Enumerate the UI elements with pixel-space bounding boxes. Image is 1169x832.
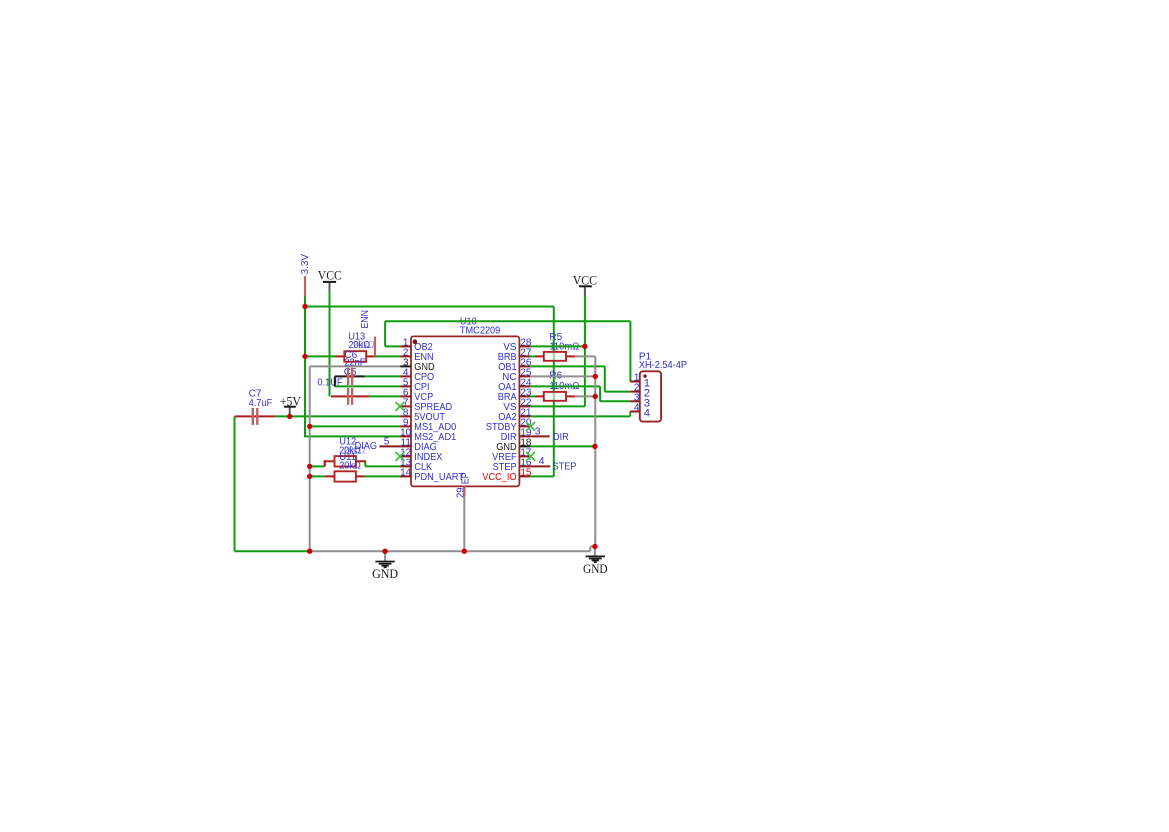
- wire VS pin 28: [530, 345, 585, 347]
- svg-text:STEP: STEP: [553, 461, 577, 472]
- power +5V bar: [284, 406, 296, 408]
- svg-text:XH-2.54-4P: XH-2.54-4P: [639, 360, 687, 371]
- junction at 594.9,446.4: [592, 444, 597, 449]
- R6 right lead: [566, 395, 575, 397]
- wire GND bus jog up: [589, 547, 591, 552]
- resistor U11 body: [335, 471, 356, 481]
- wire OA1 pin 24: [530, 385, 600, 387]
- R6 left lead: [535, 395, 544, 397]
- wire CLK jog left: [324, 460, 326, 466]
- no-connect X at 530.6,426.4: [526, 422, 535, 431]
- P1 pin 2 stub: [630, 391, 640, 393]
- wire CLK left segment: [310, 465, 325, 467]
- wire MS1_AD0 to pin 9: [310, 425, 401, 427]
- capacitor upper C6 plates: [347, 368, 349, 385]
- P1 pin 3 stub: [630, 400, 640, 402]
- wire PDN_UART left segment: [310, 475, 325, 477]
- U10 pin 15 stub: [519, 475, 530, 477]
- wire CPO green segment to pin 4: [365, 375, 401, 377]
- wire OA2 jog to P1 pin 4: [629, 412, 631, 417]
- junction at 309.7,476.4: [307, 474, 312, 479]
- wire GND pin 3 horizontal gray: [310, 365, 401, 367]
- svg-text:4: 4: [539, 456, 545, 467]
- U10 pin 13 stub: [400, 465, 411, 467]
- wire VCC_IO pin 15: [530, 475, 554, 477]
- junction at 595.3,376.4: [593, 374, 598, 379]
- junction at 584.9,346.4: [582, 344, 587, 349]
- wire CPO black segment: [335, 375, 365, 377]
- ENN label stub: [374, 337, 376, 357]
- svg-text:4: 4: [644, 408, 650, 420]
- P1 pin 4 stub: [630, 411, 640, 413]
- U10 pin 24 stub: [519, 385, 530, 387]
- wire MS2_AD1 pin 10: [304, 435, 400, 437]
- C5 upper capacitor red middle: [346, 375, 356, 377]
- junction at 305,306.5: [302, 304, 307, 309]
- U10 pin 23 stub: [519, 395, 530, 397]
- U10 pin 20 stub: [519, 425, 530, 427]
- junction at 309.7,426.4: [307, 424, 312, 429]
- C7 lead: [235, 415, 275, 417]
- capacitor lower C5 plates: [347, 388, 349, 405]
- wire OB2 to pin 1: [385, 345, 400, 347]
- ground right symbol bars: [586, 556, 605, 562]
- U10 pin 7 stub: [400, 405, 411, 407]
- wire ENN right segment to pin 2: [375, 355, 400, 357]
- P1 pin 1 stub: [630, 381, 640, 383]
- junction at 385.1,551.2: [382, 549, 387, 554]
- R5 right lead: [566, 355, 575, 357]
- U12 right lead: [356, 460, 365, 462]
- power VCC right stem: [584, 286, 586, 296]
- U11 left lead: [325, 475, 335, 477]
- svg-text:DIAG: DIAG: [355, 441, 378, 452]
- wire OB2 to P1 horizontal y=321: [385, 320, 630, 322]
- wire 5VOUT to pin 8: [275, 415, 400, 417]
- wire GND bus jog right: [590, 546, 595, 548]
- 3.3V label stub: [304, 276, 306, 296]
- DIAG pin stub with number 5: [379, 445, 400, 447]
- U12 left lead: [325, 460, 335, 462]
- svg-text:3.3V: 3.3V: [300, 254, 311, 275]
- junction at 305,356.4: [302, 354, 307, 359]
- wire OA2 pin 21: [530, 415, 630, 417]
- op-amp U10 TMC2209 body: [411, 336, 519, 486]
- U10 pin 28 stub: [519, 345, 530, 347]
- connector P1 body: [640, 371, 661, 421]
- svg-text:PDN_UART: PDN_UART: [414, 472, 464, 483]
- U10 pin 2 stub: [400, 355, 411, 357]
- svg-text:DIR: DIR: [553, 432, 569, 443]
- resistor U13 body: [344, 351, 366, 362]
- ground left stem: [384, 551, 386, 561]
- EP pad stub: [463, 486, 465, 496]
- U10 pin 19 stub: [519, 435, 530, 437]
- wire top horizontal VCC_IO net: [305, 306, 554, 308]
- wire BRA stub to R6: [530, 395, 536, 397]
- wire OB1 pin 26: [530, 365, 605, 367]
- svg-text:ENN: ENN: [360, 310, 371, 328]
- ground left symbol bars: [375, 562, 394, 568]
- wire VCC left vertical: [329, 291, 331, 397]
- ground right stem: [594, 547, 596, 556]
- R5 left lead: [535, 355, 544, 357]
- U10 pin 1 stub: [400, 345, 411, 347]
- wire EP pad to ground gray: [463, 496, 465, 551]
- resistor R6 body: [544, 392, 566, 401]
- wire GND bottom bus gray: [310, 550, 591, 552]
- U10 pin 17 stub: [519, 455, 530, 457]
- wire 3.3V vertical bus x=305: [304, 297, 306, 437]
- wire CLK to pin 13: [365, 465, 400, 467]
- C5 lower capacitor lead: [331, 395, 370, 397]
- wire CLK jog right: [364, 460, 366, 466]
- resistor U12 body: [335, 456, 356, 466]
- wire P1 pin 1 vertical x=630: [629, 321, 631, 381]
- svg-text:GND: GND: [583, 561, 608, 576]
- wire ENN left segment: [304, 355, 335, 357]
- svg-text:VCC: VCC: [318, 267, 342, 282]
- U10 pin 12 stub: [400, 455, 411, 457]
- U12 jog left: [324, 460, 326, 466]
- junction at 309.7,551.2: [307, 549, 312, 554]
- STEP pin stub with number 4: [530, 465, 550, 467]
- wire bottom left horizontal: [235, 550, 310, 552]
- wire R5 output gray: [575, 355, 595, 357]
- wire VCC right vertical: [584, 296, 586, 407]
- power +5V stem: [289, 407, 291, 416]
- wire BRB stub to R5: [530, 355, 536, 357]
- wire OA1 into P1 pin 3: [600, 400, 630, 402]
- junction at 594.9,546.5: [592, 544, 597, 549]
- svg-text:TMC2209: TMC2209: [460, 325, 501, 336]
- junction at 309.7,466.4: [307, 464, 312, 469]
- U10 pin 18 stub: [519, 445, 530, 447]
- power VCC left stem: [329, 282, 331, 291]
- wire GND vertical gray x=310: [309, 366, 311, 551]
- wire CPI to pin 5: [335, 385, 400, 387]
- U10 pin 22 stub: [519, 405, 530, 407]
- U13 left lead: [335, 355, 344, 357]
- U10 pin 3 stub: [400, 365, 411, 367]
- resistor R5 body: [544, 352, 566, 361]
- wire R6 output gray: [575, 395, 595, 397]
- wire NC pin 25 gray: [530, 375, 595, 377]
- U10 pin 4 stub: [400, 375, 411, 377]
- U10 pin 6 stub: [400, 395, 411, 397]
- power VCC right bar: [579, 285, 592, 287]
- U10 pin 21 stub: [519, 415, 530, 417]
- U10 pin 11 stub: [400, 445, 411, 447]
- U10 pin 26 stub: [519, 365, 530, 367]
- U10 pin 27 stub: [519, 355, 530, 357]
- wire PDN_UART to pin 14: [365, 475, 401, 477]
- U10 pin 25 stub: [519, 375, 530, 377]
- U11 right lead: [356, 475, 365, 477]
- no-connect X at 530.6,456.4: [526, 452, 535, 461]
- wire OA1 vertical to P1 pin 3: [599, 386, 601, 401]
- DIR pin stub with number 3: [530, 435, 550, 437]
- U10 pin 16 stub: [519, 465, 530, 467]
- U10 pin 14 stub: [400, 475, 411, 477]
- wire OB2 vertical x=385: [384, 321, 386, 346]
- U10 pin 8 stub: [400, 415, 411, 417]
- wire sense ground vertical gray x=595: [594, 356, 596, 546]
- capacitor C7 plates: [252, 408, 254, 425]
- junction at 464.3,551.2: [462, 549, 467, 554]
- wire left edge vertical x=235: [234, 416, 236, 551]
- svg-text:VCC_IO: VCC_IO: [482, 472, 517, 483]
- no-connect X at 400.0,456.4: [396, 452, 405, 461]
- wire OB1 vertical to P1 pin 2: [604, 366, 606, 391]
- svg-text:4.7uF: 4.7uF: [249, 398, 273, 409]
- svg-text:EP: EP: [460, 472, 471, 484]
- U10 pin 1 marker dot: [413, 339, 418, 344]
- wire VCP to pin 6: [370, 395, 401, 397]
- wire CPO-CPI jog black: [334, 376, 336, 386]
- junction at 289.7,416.4: [287, 414, 292, 419]
- P1 pin 1 marker dot: [643, 374, 646, 377]
- wire VCC_IO vertical x=554 under bodies: [553, 307, 555, 477]
- U10 pin 10 stub: [400, 435, 411, 437]
- junction at 595.3,396.4: [593, 394, 598, 399]
- wire OB1 into P1 pin 2: [605, 391, 630, 393]
- wire VS pin 22: [530, 405, 585, 407]
- no-connect X at 400.0,406.4: [396, 402, 405, 411]
- svg-text:20kΩ: 20kΩ: [339, 461, 361, 472]
- wire GND pin 18: [530, 445, 595, 447]
- power VCC left bar: [323, 281, 336, 283]
- U10 pin 9 stub: [400, 425, 411, 427]
- U13 right lead: [366, 355, 375, 357]
- U10 pin 5 stub: [400, 385, 411, 387]
